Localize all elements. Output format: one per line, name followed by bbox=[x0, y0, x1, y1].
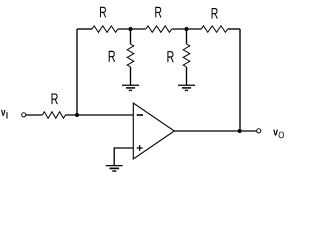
ground (left shunt) bbox=[122, 85, 139, 90]
label R of R3 bbox=[212, 8, 218, 19]
wire left vertical (feedback to inverting node) bbox=[76, 29, 78, 115]
resistor R4 (shunt left) bbox=[127, 44, 134, 67]
input terminal circle bbox=[22, 113, 26, 117]
ground (right shunt) bbox=[178, 85, 195, 90]
wire node A down bbox=[130, 29, 132, 44]
label vI bbox=[1, 110, 6, 116]
node A junction dot bbox=[129, 27, 133, 31]
op-amp minus sign bbox=[137, 114, 143, 116]
wire R4 to ground bbox=[130, 67, 132, 85]
wire between R1 and node A bbox=[118, 28, 146, 30]
label vO bbox=[273, 130, 278, 136]
wire op-amp output to terminal bbox=[174, 130, 256, 132]
label R of R1 bbox=[100, 7, 106, 18]
wire non-inverting input to ground bbox=[114, 148, 133, 165]
wire node B down bbox=[186, 29, 188, 44]
resistor R2 (top middle) bbox=[146, 26, 172, 32]
node output junction dot bbox=[238, 129, 242, 133]
wire R5 to ground bbox=[186, 67, 188, 85]
wire top rail left segment bbox=[77, 28, 92, 30]
label R of R2 bbox=[155, 7, 161, 18]
wire R3 to top right corner bbox=[228, 28, 240, 30]
output terminal circle bbox=[257, 129, 261, 133]
label R of R4 bbox=[109, 51, 115, 62]
wire right vertical (output to feedback rail) bbox=[239, 29, 241, 131]
resistor R5 (shunt right) bbox=[183, 44, 190, 67]
resistor R6 (input R) bbox=[42, 112, 65, 119]
wire input terminal to Rin bbox=[26, 114, 43, 116]
node B junction dot bbox=[185, 27, 189, 31]
label R of R6 bbox=[52, 94, 58, 105]
label R of R5 bbox=[167, 51, 173, 62]
op-amp U1 triangle bbox=[133, 103, 174, 159]
wire between R2 and node B bbox=[172, 28, 202, 30]
resistor R1 (top left) bbox=[92, 26, 118, 32]
node inverting input junction dot bbox=[75, 113, 79, 117]
ground (op-amp non-inverting) bbox=[106, 166, 123, 172]
resistor R3 (top right) bbox=[201, 26, 227, 32]
label vO subscript O bbox=[279, 132, 284, 139]
wire Rin to op-amp inverting input bbox=[65, 114, 133, 116]
op-amp plus sign bbox=[137, 145, 143, 151]
label vI subscript I bbox=[6, 112, 7, 118]
